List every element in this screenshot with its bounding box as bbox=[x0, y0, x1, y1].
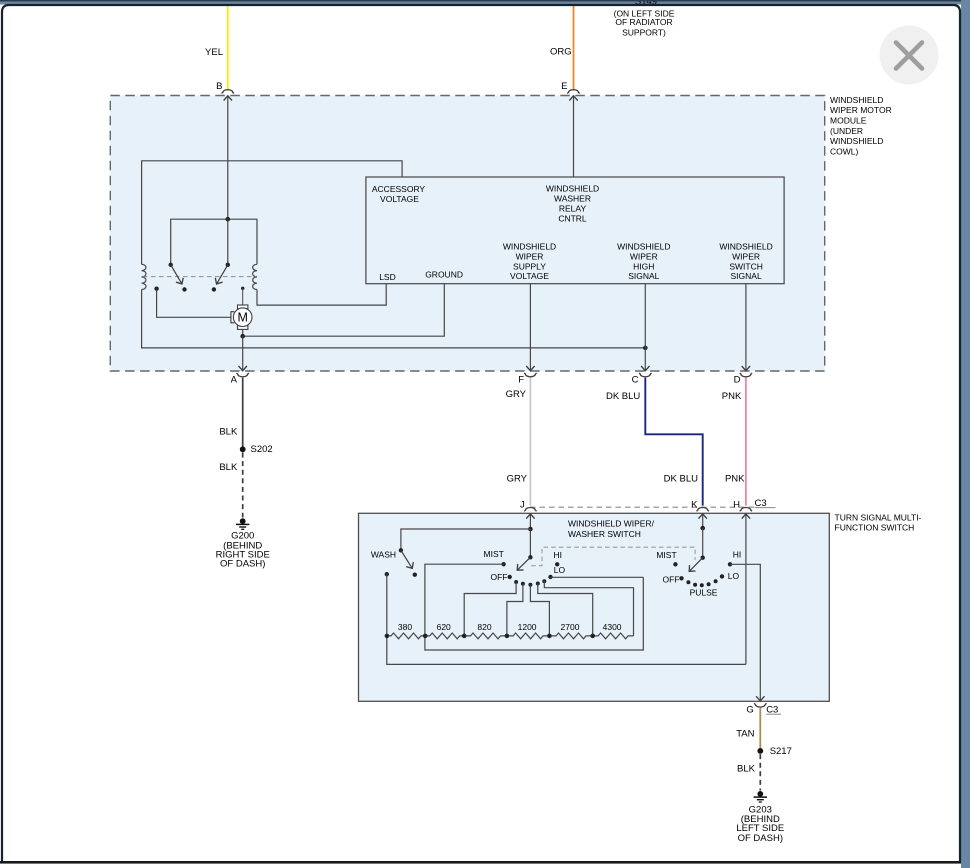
resistor 1200 ohm bbox=[507, 633, 550, 639]
svg-text:TURN SIGNAL MULTI-: TURN SIGNAL MULTI- bbox=[835, 512, 922, 522]
svg-text:1200: 1200 bbox=[518, 622, 537, 632]
svg-text:WINDSHIELD: WINDSHIELD bbox=[503, 241, 556, 251]
contact LO right bbox=[720, 574, 724, 578]
svg-text:B: B bbox=[216, 81, 222, 92]
park switch SW1 bbox=[169, 263, 173, 267]
svg-text:4300: 4300 bbox=[603, 622, 622, 632]
connector pin K bbox=[697, 507, 709, 511]
svg-text:LO: LO bbox=[728, 571, 740, 581]
wire accessory voltage feed bbox=[142, 161, 403, 264]
svg-text:MODULE: MODULE bbox=[830, 116, 867, 126]
wire J stem entry arrow bbox=[529, 514, 531, 529]
svg-text:WINDSHIELD: WINDSHIELD bbox=[546, 183, 599, 193]
wire YEL from fuse to B bbox=[227, 4, 229, 90]
connector pin D bbox=[740, 373, 752, 377]
svg-text:(UNDER: (UNDER bbox=[830, 126, 863, 136]
svg-text:F: F bbox=[518, 374, 524, 385]
svg-text:WINDSHIELD: WINDSHIELD bbox=[719, 241, 772, 251]
svg-text:BLK: BLK bbox=[219, 462, 238, 473]
contact MIST left bbox=[501, 562, 505, 566]
wire C stem with exit arrow bbox=[644, 284, 646, 371]
contact MIST right bbox=[673, 562, 677, 566]
svg-text:H: H bbox=[733, 500, 740, 511]
pulse arc contacts bbox=[686, 580, 690, 584]
svg-text:C: C bbox=[632, 374, 639, 385]
wire mist to lo bus bbox=[425, 564, 643, 650]
connector pin E bbox=[567, 90, 579, 94]
svg-text:WIPER: WIPER bbox=[630, 251, 658, 261]
svg-text:WINDSHIELD: WINDSHIELD bbox=[830, 136, 883, 146]
node R4 bbox=[505, 634, 510, 639]
ground G200 bbox=[236, 518, 249, 529]
wire delay tap 4 bbox=[538, 584, 593, 636]
coil L2 right winding bbox=[253, 264, 257, 289]
wire delay tap 1 bbox=[464, 582, 516, 636]
node R3 bbox=[462, 634, 467, 639]
svg-text:WINDSHIELD WIPER/: WINDSHIELD WIPER/ bbox=[568, 519, 655, 529]
motor M1 bbox=[231, 305, 252, 329]
wire wash contact through resistor node to H bus bbox=[387, 574, 746, 664]
contact LO left bbox=[548, 575, 552, 579]
connector pin B bbox=[222, 90, 234, 94]
connector pin J bbox=[524, 508, 536, 512]
svg-text:WIPER: WIPER bbox=[732, 251, 760, 261]
svg-text:GRY: GRY bbox=[506, 389, 527, 400]
svg-text:BLK: BLK bbox=[737, 764, 756, 775]
splice S202 bbox=[240, 446, 246, 452]
wire DK BLU C to K bbox=[645, 378, 702, 506]
svg-text:DK BLU: DK BLU bbox=[606, 391, 640, 402]
wire left coil to high-signal bus bbox=[142, 290, 646, 348]
svg-text:YEL: YEL bbox=[205, 47, 223, 58]
dashed sub-outline bbox=[531, 547, 695, 566]
svg-text:OFF: OFF bbox=[491, 572, 508, 582]
park switch supply bus bbox=[171, 219, 257, 265]
svg-text:WIPER MOTOR: WIPER MOTOR bbox=[830, 105, 892, 115]
svg-text:SUPPLY: SUPPLY bbox=[513, 261, 546, 271]
svg-text:DK BLU: DK BLU bbox=[664, 474, 698, 485]
node J junction bbox=[528, 527, 533, 532]
wash return contact bbox=[385, 572, 389, 576]
switch pulse lever bbox=[701, 556, 705, 560]
mechanical linkage dashed bbox=[143, 276, 256, 278]
svg-text:A: A bbox=[231, 374, 238, 385]
svg-text:WIPER: WIPER bbox=[516, 251, 544, 261]
svg-text:SUPPORT): SUPPORT) bbox=[622, 28, 666, 38]
svg-text:620: 620 bbox=[437, 622, 451, 632]
resistor 4300 ohm bbox=[593, 633, 634, 639]
wire motor bottom to ground pin bbox=[243, 284, 445, 337]
svg-text:MIST: MIST bbox=[656, 550, 676, 560]
resistor 620 ohm bbox=[425, 633, 464, 639]
svg-text:SWITCH: SWITCH bbox=[729, 261, 763, 271]
windshield wiper motor module box U1 bbox=[110, 96, 824, 372]
wire E stem with entry arrow bbox=[573, 96, 575, 177]
wire B stem with entry arrow bbox=[227, 96, 229, 219]
contact HI left bbox=[555, 562, 559, 566]
svg-text:LO: LO bbox=[554, 565, 566, 575]
svg-text:OF DASH): OF DASH) bbox=[738, 833, 783, 844]
wire ORG to E bbox=[573, 4, 575, 90]
resistor 2700 ohm bbox=[549, 633, 592, 639]
delay arc contacts bbox=[514, 580, 518, 584]
svg-text:M: M bbox=[237, 311, 247, 325]
switch WASH bbox=[399, 548, 403, 552]
wire BLK S202 to G200 dashed bbox=[242, 453, 244, 518]
svg-text:2700: 2700 bbox=[561, 622, 580, 632]
node R1 bbox=[385, 634, 390, 639]
node C junction bbox=[643, 346, 648, 351]
svg-text:COWL): COWL) bbox=[830, 147, 859, 157]
svg-text:BLK: BLK bbox=[219, 426, 238, 437]
connector pin F bbox=[524, 373, 536, 377]
svg-text:D: D bbox=[734, 374, 741, 385]
svg-text:WASHER: WASHER bbox=[554, 193, 591, 203]
svg-text:ACCESSORY: ACCESSORY bbox=[372, 184, 426, 194]
svg-text:OF DASH): OF DASH) bbox=[220, 559, 265, 570]
svg-text:FUNCTION SWITCH: FUNCTION SWITCH bbox=[835, 523, 915, 533]
connector C3 dashed line bbox=[530, 506, 754, 508]
wire BLK S217 to G203 dashed bbox=[759, 754, 761, 790]
turn signal multi-function switch box S1 bbox=[359, 513, 830, 701]
node R5 bbox=[547, 634, 552, 639]
svg-text:RELAY: RELAY bbox=[559, 204, 587, 214]
park switch SW2 bbox=[226, 263, 230, 267]
svg-text:LSD: LSD bbox=[379, 272, 396, 282]
svg-text:ORG: ORG bbox=[550, 47, 572, 58]
close button bbox=[880, 26, 939, 85]
svg-text:SIGNAL: SIGNAL bbox=[628, 271, 659, 281]
wire delay tap 3 bbox=[530, 585, 549, 636]
svg-text:S217: S217 bbox=[770, 746, 792, 757]
svg-text:WINDSHIELD: WINDSHIELD bbox=[830, 95, 883, 105]
svg-text:WASH: WASH bbox=[371, 550, 396, 560]
node K bbox=[700, 526, 705, 531]
splice S217 bbox=[757, 748, 763, 754]
wire delay tap 5 bbox=[544, 581, 633, 636]
svg-text:E: E bbox=[561, 81, 567, 92]
wire GRY F to J bbox=[529, 378, 531, 506]
connector pin H bbox=[740, 507, 752, 511]
svg-text:VOLTAGE: VOLTAGE bbox=[380, 194, 419, 204]
svg-text:WINDSHIELD: WINDSHIELD bbox=[617, 241, 670, 251]
wire PNK D to H bbox=[745, 378, 747, 506]
node motor ground junction bbox=[240, 334, 245, 339]
node R2 bbox=[423, 634, 428, 639]
wire J to delay switch pivot bbox=[529, 529, 531, 557]
svg-text:380: 380 bbox=[398, 622, 412, 632]
svg-text:HI: HI bbox=[733, 550, 742, 560]
svg-text:SIGNAL: SIGNAL bbox=[731, 271, 762, 281]
svg-text:K: K bbox=[691, 500, 698, 511]
wire LO to bus bbox=[551, 576, 644, 578]
wire BLK A to S202 bbox=[242, 378, 244, 447]
contact to motor brush low bbox=[154, 287, 158, 291]
svg-text:J: J bbox=[520, 500, 525, 511]
contact OFF right bbox=[679, 576, 683, 580]
wire HI to G output bbox=[730, 564, 760, 690]
contact OFF left bbox=[508, 575, 512, 579]
svg-text:MIST: MIST bbox=[484, 549, 504, 559]
wire F stem with exit arrow bbox=[529, 284, 531, 371]
wiper module internal logic box bbox=[366, 177, 784, 284]
svg-text:PULSE: PULSE bbox=[690, 588, 718, 598]
resistor 820 ohm bbox=[464, 633, 507, 639]
wire D stem with exit arrow bbox=[745, 284, 747, 371]
svg-text:VOLTAGE: VOLTAGE bbox=[510, 271, 549, 281]
svg-text:S202: S202 bbox=[251, 444, 273, 455]
svg-text:TAN: TAN bbox=[736, 729, 754, 740]
wire to wash switch bbox=[401, 529, 531, 550]
page frame bbox=[0, 0, 970, 5]
wire A stem with exit arrow bbox=[242, 336, 244, 370]
wire TAN G to S217 bbox=[759, 707, 761, 748]
wire H stem down to bus bbox=[745, 514, 747, 664]
svg-text:820: 820 bbox=[477, 622, 491, 632]
connector pin A bbox=[237, 373, 249, 377]
svg-text:OFF: OFF bbox=[663, 575, 680, 585]
resistor 380 ohm bbox=[387, 633, 425, 639]
svg-text:GRY: GRY bbox=[507, 474, 528, 485]
wire B to switch pivot bbox=[227, 219, 229, 265]
connector pin C bbox=[639, 373, 651, 377]
connector pin G bbox=[754, 703, 766, 707]
wire K stem entry arrow bbox=[702, 514, 704, 528]
node R6 bbox=[590, 634, 595, 639]
wire right coil to LSD bbox=[257, 284, 386, 305]
contact above motor bbox=[241, 287, 244, 290]
switch delay lever bbox=[528, 555, 532, 559]
svg-text:OF RADIATOR: OF RADIATOR bbox=[615, 17, 672, 27]
svg-text:HI: HI bbox=[554, 550, 563, 560]
coil L1 left winding bbox=[142, 264, 146, 289]
svg-text:GROUND: GROUND bbox=[425, 270, 463, 280]
svg-text:G: G bbox=[746, 705, 753, 716]
svg-text:WASHER SWITCH: WASHER SWITCH bbox=[568, 529, 641, 539]
svg-text:CNTRL: CNTRL bbox=[558, 214, 587, 224]
wire delay tap 2 bbox=[507, 584, 523, 636]
svg-text:PNK: PNK bbox=[725, 474, 745, 485]
contact HI right bbox=[728, 562, 732, 566]
node B junction bbox=[226, 217, 231, 222]
ground G203 bbox=[754, 791, 767, 802]
svg-text:HIGH: HIGH bbox=[633, 261, 654, 271]
svg-text:PNK: PNK bbox=[722, 391, 742, 402]
